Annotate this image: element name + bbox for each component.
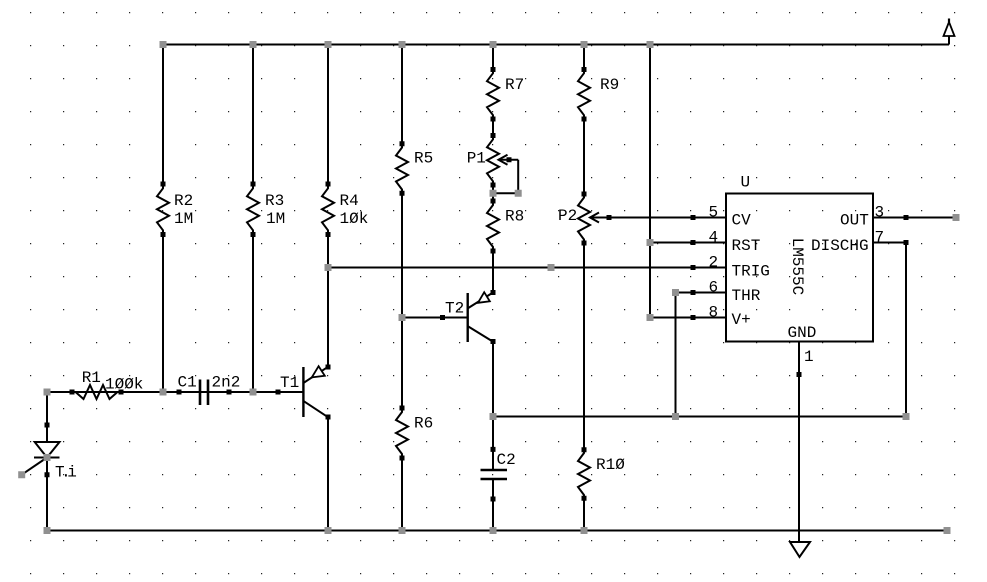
svg-text:CV: CV: [732, 212, 752, 230]
svg-text:R1: R1: [82, 369, 101, 387]
svg-text:1: 1: [804, 348, 814, 366]
svg-text:P2: P2: [558, 207, 577, 225]
svg-text:LM555C: LM555C: [788, 238, 806, 296]
svg-text:3: 3: [875, 204, 885, 222]
svg-text:R5: R5: [414, 150, 433, 168]
svg-text:8: 8: [709, 304, 719, 322]
svg-text:TRIG: TRIG: [732, 263, 770, 281]
svg-text:RST: RST: [732, 237, 761, 255]
svg-text:R6: R6: [414, 415, 433, 433]
svg-text:R9: R9: [600, 76, 619, 94]
svg-text:OUT: OUT: [840, 212, 869, 230]
svg-text:4: 4: [709, 229, 719, 247]
svg-text:U: U: [741, 174, 751, 192]
svg-text:C2: C2: [497, 451, 516, 469]
svg-text:V+: V+: [732, 311, 751, 329]
svg-text:T1: T1: [280, 374, 299, 392]
svg-text:1Øk: 1Øk: [340, 210, 369, 228]
svg-text:P1: P1: [467, 150, 486, 168]
svg-text:5: 5: [709, 204, 719, 222]
svg-text:7: 7: [875, 229, 885, 247]
svg-text:T2: T2: [445, 300, 464, 318]
svg-text:R2: R2: [174, 192, 193, 210]
svg-text:1ØØk: 1ØØk: [105, 376, 143, 394]
svg-text:2n2: 2n2: [212, 374, 241, 392]
svg-text:DISCHG: DISCHG: [811, 237, 869, 255]
svg-text:T.i: T.i: [55, 464, 76, 482]
svg-text:C1: C1: [178, 374, 197, 392]
svg-text:R3: R3: [265, 192, 284, 210]
svg-text:1M: 1M: [266, 210, 285, 228]
svg-text:1M: 1M: [174, 210, 193, 228]
svg-text:R8: R8: [505, 208, 524, 226]
svg-text:THR: THR: [732, 287, 761, 305]
svg-text:2: 2: [709, 254, 719, 272]
svg-text:R1Ø: R1Ø: [596, 456, 625, 474]
svg-text:R4: R4: [340, 192, 359, 210]
svg-text:GND: GND: [788, 324, 817, 342]
svg-text:6: 6: [709, 279, 719, 297]
svg-text:R7: R7: [505, 76, 524, 94]
